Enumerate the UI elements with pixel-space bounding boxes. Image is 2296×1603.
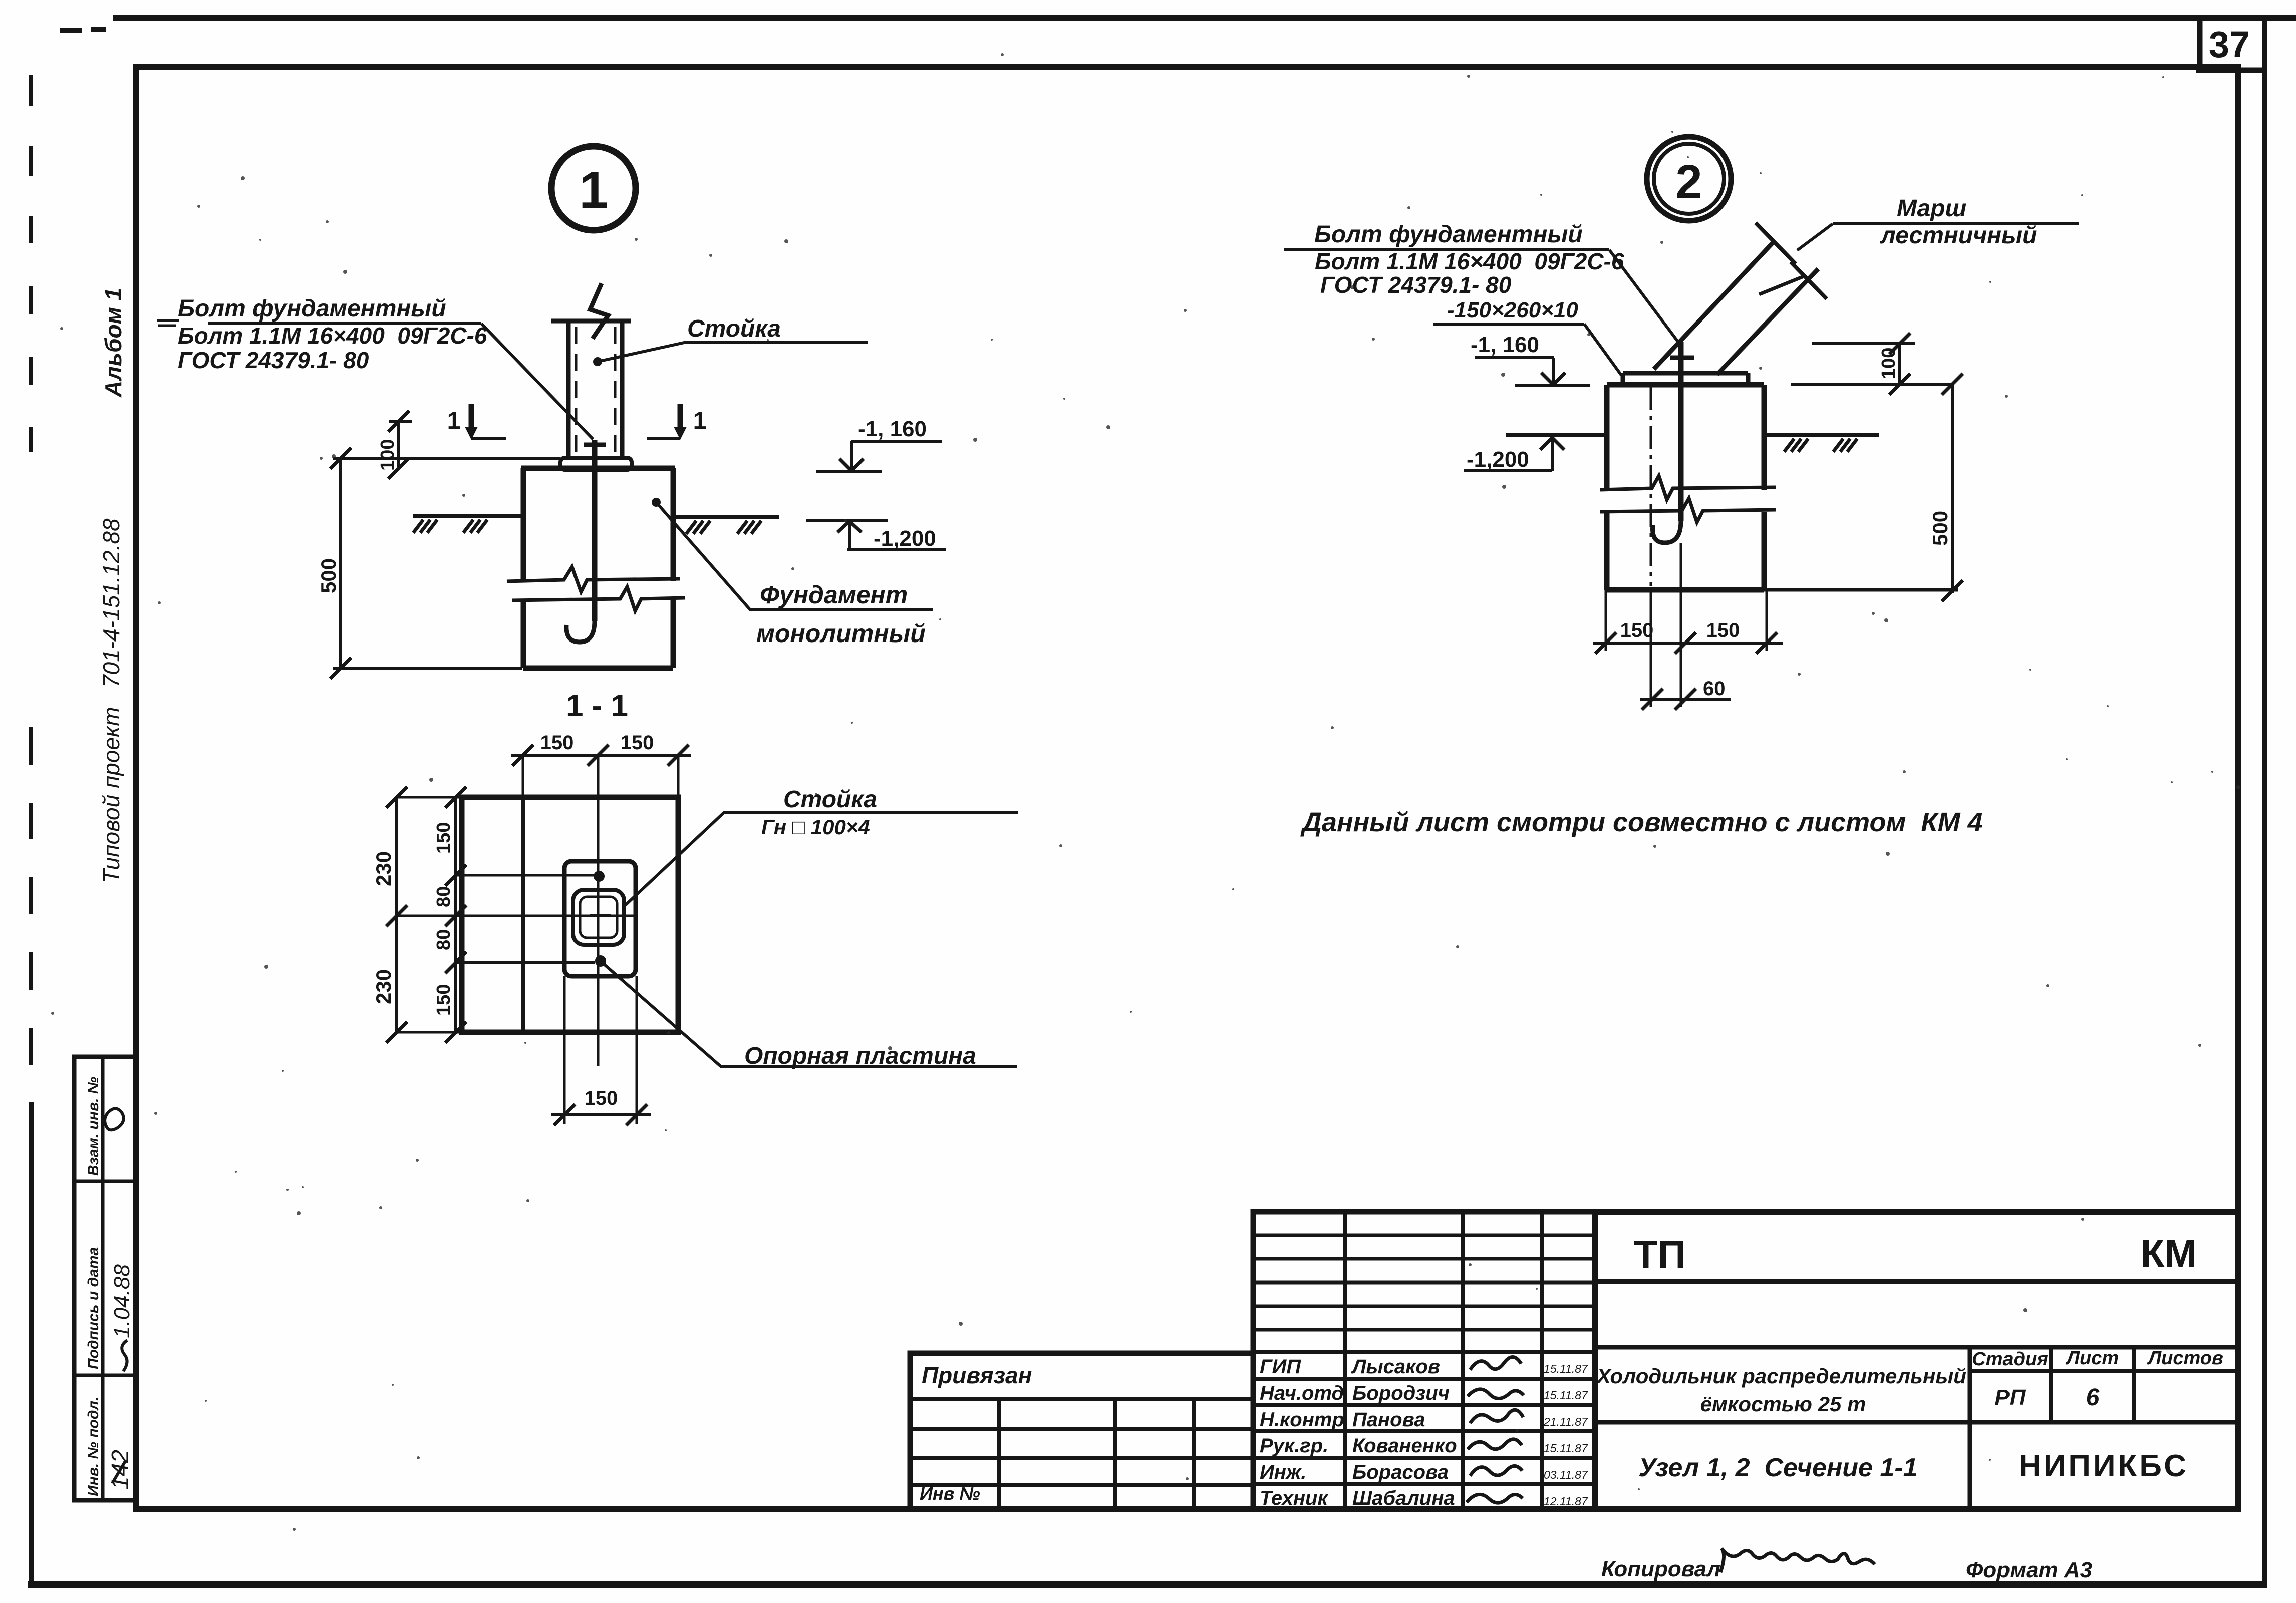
svg-text:Болт 1.1М 16×400 09Г2С-6: Болт 1.1М 16×400 09Г2С-6 (1315, 248, 1624, 274)
node 2 foundation break line lower (1600, 498, 1776, 522)
sheet number box 37 (2197, 17, 2203, 70)
svg-text:12.11.87: 12.11.87 (1544, 1495, 1588, 1508)
svg-text:Копировал: Копировал (1601, 1557, 1720, 1581)
node 1 foundation right edge lower (671, 599, 676, 668)
svg-text:15.11.87: 15.11.87 (1544, 1362, 1588, 1375)
svg-text:15.11.87: 15.11.87 (1544, 1442, 1588, 1455)
svg-text:Лысаков: Лысаков (1351, 1356, 1440, 1378)
node 1 stoyka leader and label (593, 357, 602, 366)
svg-text:150: 150 (433, 984, 454, 1016)
node 1 column cap line (551, 319, 631, 324)
scan border right line (2262, 15, 2267, 1587)
svg-text:Подпись и дата: Подпись и дата (85, 1247, 102, 1369)
svg-text:лестничный: лестничный (1880, 222, 2037, 249)
node 2 anchor bolt hook (1653, 521, 1681, 543)
titleblock staff table outline (1253, 1212, 1595, 1509)
node 1 bolt note leader shelf (208, 322, 481, 325)
svg-text:150: 150 (433, 822, 454, 854)
node 2 foundation bottom extension to dim (1764, 588, 1958, 592)
node 1 foundation bottom line (523, 666, 673, 671)
svg-text:Формат А3: Формат А3 (1966, 1558, 2092, 1582)
node 1 anchor bolt shaft (592, 440, 598, 621)
plan foundation outline (462, 797, 678, 1032)
svg-text:Данный лист смотри совместно с: Данный лист смотри совместно с листом КМ… (1300, 807, 1983, 837)
svg-text:1.04.88: 1.04.88 (110, 1264, 134, 1338)
scan speckles (1372, 338, 1375, 341)
svg-text:Инж.: Инж. (1260, 1461, 1307, 1483)
node 2 dimension 60 (1640, 698, 1731, 701)
node 1 ground line right (673, 515, 779, 519)
svg-text:-1,200: -1,200 (874, 526, 936, 551)
svg-text:150: 150 (540, 732, 574, 754)
svg-text:Бородзич: Бородзич (1352, 1382, 1450, 1404)
node 1 column right edge (620, 321, 625, 459)
node 2 dimension 500 (1951, 384, 1954, 593)
node 2 foundation left edge lower (1604, 512, 1610, 590)
node 2 plate note leader (1433, 323, 1584, 326)
node 1 detail circle (551, 146, 636, 230)
strip handwriting signature squiggle (122, 1340, 127, 1371)
node 2 anchor bolt top cross (1670, 356, 1694, 360)
svg-text:Рук.гр.: Рук.гр. (1260, 1435, 1328, 1457)
node 1 base plate (560, 458, 632, 470)
svg-text:Стойка: Стойка (687, 315, 781, 342)
node 1 anchor bolt hook (566, 621, 595, 642)
node 2 ladder left stringer (1654, 241, 1774, 369)
svg-text:230: 230 (372, 969, 395, 1004)
svg-text:37: 37 (2209, 24, 2250, 65)
svg-text:500: 500 (317, 558, 340, 593)
svg-text:Листов: Листов (2147, 1348, 2223, 1369)
node 2 foundation left edge upper (1604, 385, 1610, 490)
node 1 dimension 100 (389, 420, 412, 423)
svg-text:03.11.87: 03.11.87 (1544, 1468, 1588, 1481)
svg-text:ГОСТ 24379.1- 80: ГОСТ 24379.1- 80 (178, 347, 369, 373)
node 2 elevation -1.200 (1540, 438, 1564, 450)
node 1 column left dashed face (575, 327, 578, 457)
node 2 detail circle (1647, 137, 1731, 221)
plan bolt axis line lower (455, 961, 595, 964)
titleblock signature squiggles (1470, 1357, 1521, 1370)
svg-text:80: 80 (433, 886, 454, 907)
left attribute strip box (74, 1057, 135, 1500)
svg-text:500: 500 (1928, 511, 1952, 546)
svg-text:15.11.87: 15.11.87 (1544, 1389, 1588, 1402)
node 1 ground line left (413, 514, 523, 518)
node 2 ladder break tick upper (1756, 223, 1796, 264)
node 1 foundation left edge upper (521, 468, 526, 581)
svg-text:РП: РП (1995, 1385, 2026, 1410)
svg-text:ГОСТ 24379.1- 80: ГОСТ 24379.1- 80 (1320, 272, 1512, 298)
node 2 ladder rung line (1759, 276, 1804, 294)
plan bolt axis line upper (455, 874, 595, 877)
svg-text:1: 1 (447, 408, 461, 434)
node 2 foundation bottom line (1607, 587, 1764, 593)
node 1 column left edge (566, 321, 571, 459)
svg-text:Болт фундаментный: Болт фундаментный (178, 295, 446, 322)
svg-text:Нач.отд: Нач.отд (1260, 1382, 1344, 1404)
svg-text:монолитный: монолитный (756, 619, 926, 648)
svg-text:Инв №: Инв № (920, 1483, 980, 1504)
svg-text:100: 100 (377, 439, 398, 471)
svg-text:150: 150 (1620, 619, 1654, 642)
node 1 bolt note leader diagonal (481, 324, 593, 439)
node 2 ladder right stringer (1717, 269, 1818, 375)
svg-text:Стадия: Стадия (1972, 1349, 2048, 1370)
svg-text:100: 100 (1878, 348, 1899, 379)
plan top dimension 150 150 (522, 755, 524, 797)
svg-text:Альбом 1: Альбом 1 (100, 288, 126, 398)
titleblock band line 2 (1595, 1345, 2238, 1350)
node 1 foundation top line (521, 466, 675, 471)
svg-text:-1,200: -1,200 (1467, 447, 1529, 472)
node 2 bolt note leader (1284, 248, 1609, 251)
svg-text:-150×260×10: -150×260×10 (1447, 298, 1578, 323)
titleblock stadia list listov header (1968, 1347, 1972, 1509)
node 1 section mark right (678, 404, 683, 427)
node 2 ground line right (1764, 433, 1879, 437)
node 2 foundation right edge lower (1762, 512, 1767, 590)
svg-text:150: 150 (1706, 619, 1740, 642)
node 1 foundation break line upper (507, 567, 680, 592)
titleblock right box outline (1595, 1212, 2238, 1509)
node 1 foundation right edge upper (671, 468, 676, 581)
svg-text:-1, 160: -1, 160 (1471, 333, 1539, 357)
svg-text:Стойка: Стойка (783, 786, 877, 813)
node 2 marsh label leader (1833, 222, 2079, 225)
node 2 base plate (1623, 371, 1748, 376)
node 2 centre line extension below (1650, 590, 1652, 707)
node 1 elevation -1.200 (806, 519, 888, 522)
titleblock staff table empty rows (1253, 1234, 1595, 1237)
svg-text:Техник: Техник (1260, 1487, 1328, 1509)
titleblock TP KM band line (1595, 1279, 2238, 1284)
titleblock band line 3 (1595, 1420, 2238, 1425)
svg-text:230: 230 (372, 851, 395, 886)
plan column tube outer (573, 890, 624, 945)
svg-text:Лист: Лист (2065, 1348, 2119, 1369)
scan border left marks (29, 75, 33, 106)
plan stoyka label leader (624, 813, 1018, 906)
svg-text:150: 150 (585, 1087, 618, 1109)
plan column tube inner (580, 897, 617, 938)
svg-text:2: 2 (1675, 155, 1702, 209)
svg-text:Взам. инв. №: Взам. инв. № (85, 1077, 102, 1176)
svg-text:Борасова: Борасова (1352, 1461, 1449, 1483)
node 2 dimension 100 (1812, 342, 1915, 345)
plan centre vertical line (597, 755, 600, 1066)
plan section cut line (521, 797, 525, 1032)
node 2 foundation break line upper (1600, 476, 1776, 500)
svg-text:Фундамент: Фундамент (760, 581, 908, 609)
svg-text:150: 150 (621, 732, 654, 754)
kopiroval signature (1720, 1548, 1875, 1572)
node 2 foundation right edge upper (1762, 385, 1767, 490)
svg-text:Панова: Панова (1352, 1409, 1425, 1431)
node 1 dimension 500 (333, 457, 560, 460)
svg-text:1: 1 (693, 408, 707, 434)
scan border top line (113, 15, 2296, 21)
svg-text:Холодильник распределительный: Холодильник распределительный (1596, 1364, 1966, 1388)
svg-text:Марш: Марш (1897, 195, 1966, 222)
svg-text:ёмкостью 25 т: ёмкостью 25 т (1700, 1392, 1866, 1416)
node 2 anchor bolt shaft (1678, 342, 1684, 521)
node 2 anchor bolt extension below (1680, 543, 1682, 707)
svg-text:-1, 160: -1, 160 (858, 417, 927, 441)
svg-text:Инв. № подл.: Инв. № подл. (85, 1397, 102, 1496)
svg-text:Шабалина: Шабалина (1352, 1487, 1455, 1509)
svg-text:Узел 1, 2 Сечение 1-1: Узел 1, 2 Сечение 1-1 (1638, 1453, 1917, 1482)
plan opornaya plastina label leader (601, 961, 1017, 1067)
titleblock staff table labelled rows (1253, 1350, 1595, 1354)
node 1 column break squiggle (590, 283, 608, 339)
svg-text:Гн □ 100×4: Гн □ 100×4 (761, 815, 870, 839)
svg-text:ТП: ТП (1634, 1232, 1686, 1276)
svg-text:Болт фундаментный: Болт фундаментный (1314, 221, 1583, 248)
svg-text:Болт 1.1М 16×400 09Г2С-6: Болт 1.1М 16×400 09Г2С-6 (178, 323, 487, 349)
scan border bottom line (28, 1581, 2267, 1588)
strip scribble in vzam cell (105, 1108, 124, 1130)
svg-text:21.11.87: 21.11.87 (1543, 1415, 1588, 1428)
svg-text:Н.контр: Н.контр (1260, 1409, 1344, 1431)
svg-text:Типовой проект 701-4-151.12.: Типовой проект 701-4-151.12.88 (98, 518, 124, 883)
svg-text:ГИП: ГИП (1260, 1356, 1301, 1378)
plan bottom dimension 150 (563, 976, 566, 1124)
svg-text:Опорная пластина: Опорная пластина (744, 1043, 976, 1069)
svg-text:80: 80 (433, 929, 454, 950)
node 1 anchor bolt top cross (584, 443, 606, 447)
node 2 ladder break tick lower (1791, 262, 1827, 299)
plan base plate (564, 861, 636, 976)
node 1 foundation left edge lower (521, 599, 526, 668)
node 2 dimension 150 150 (1605, 590, 1607, 651)
svg-text:60: 60 (1703, 678, 1726, 700)
svg-text:Привязан: Привязан (922, 1362, 1032, 1388)
svg-text:Кованенко: Кованенко (1352, 1435, 1457, 1457)
svg-text:НИПИКБС: НИПИКБС (2019, 1449, 2189, 1483)
plan dimension 230 230 (397, 796, 462, 799)
node 2 foundation centre line (1650, 387, 1652, 586)
node 2 ground line left (1506, 433, 1607, 437)
svg-text:6: 6 (2086, 1384, 2100, 1411)
svg-text:КМ: КМ (2141, 1231, 2197, 1275)
node 1 foundation break line lower (512, 587, 685, 611)
node 1 column right dashed face (614, 327, 617, 457)
node 2 foundation top line (1607, 382, 1764, 388)
plan centre horizontal line (396, 915, 636, 917)
svg-text:1 - 1: 1 - 1 (566, 689, 628, 723)
plan tube centre dash (590, 914, 611, 917)
plan dimension 150 80 80 150 (454, 797, 457, 1032)
node 1 foundation label leader (652, 498, 661, 507)
svg-text:1: 1 (579, 161, 608, 219)
titleblock privyazan table outline (910, 1353, 1253, 1509)
